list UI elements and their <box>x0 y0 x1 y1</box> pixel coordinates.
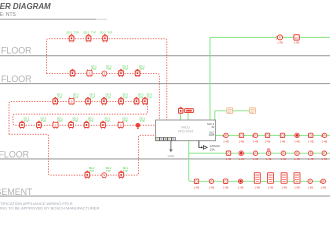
svg-text:TYP: TYP <box>147 96 152 99</box>
speaker NB-7 <box>281 173 287 184</box>
svg-text:SER DIAGRAM: SER DIAGRAM <box>0 2 51 11</box>
svg-text:IN: IN <box>212 125 215 129</box>
label SDB3 <box>123 167 129 173</box>
svg-text:TYP: TYP <box>107 32 112 35</box>
label SD1B1 <box>23 117 29 123</box>
svg-text:P: P <box>309 179 311 183</box>
svg-text:1-4B: 1-4B <box>226 157 232 161</box>
wire SLC floor2 row across and down to panel <box>47 73 160 120</box>
svg-text:D: D <box>227 151 229 155</box>
svg-text:1-4B: 1-4B <box>294 139 300 143</box>
horn strobe N1-1 <box>223 133 229 137</box>
label SDB2 <box>106 167 112 173</box>
device annunciator A2 (labelled box) above panel <box>185 109 194 113</box>
svg-text:1-4B: 1-4B <box>281 185 287 189</box>
wire NAC1 from panel right <box>216 134 330 136</box>
label SD1A2 <box>73 94 79 100</box>
svg-text:S: S <box>103 72 105 76</box>
horn strobe N1-8 <box>321 133 326 137</box>
svg-text:1-4B: 1-4B <box>294 41 300 45</box>
detector SD22 <box>87 69 92 77</box>
power tap 120VAC 15A <box>199 141 220 152</box>
detector SD23 <box>102 71 107 77</box>
horn NB-2 <box>209 179 213 183</box>
svg-text:TYP: TYP <box>74 32 79 35</box>
svg-text:1-4B: 1-4B <box>223 185 229 189</box>
label SD23 <box>106 66 112 72</box>
smoke detector SD1A5 <box>119 97 124 105</box>
terminal strip on panel <box>156 137 176 140</box>
svg-text:1-4B: 1-4B <box>253 157 259 161</box>
svg-text:TYP: TYP <box>91 68 96 71</box>
svg-text:TYP: TYP <box>90 96 95 99</box>
wire NAC riser to 3rd floor + top NAC run <box>210 37 330 120</box>
svg-text:SEMENT: SEMENT <box>0 187 33 197</box>
label SD1A5 <box>122 94 128 100</box>
wire stubs annunciators to panel top <box>180 113 188 120</box>
svg-text:1-4B: 1-4B <box>322 139 328 143</box>
detector SDB2 <box>102 173 107 179</box>
strobe N2-1 <box>226 151 230 155</box>
svg-text:TYP: TYP <box>106 68 111 71</box>
label SD1B4 <box>72 117 78 123</box>
svg-text:1-4B: 1-4B <box>307 185 313 189</box>
svg-text:1-4B: 1-4B <box>268 185 274 189</box>
smoke detector SD1B4 <box>69 121 74 129</box>
smoke detector SDB1 <box>85 171 90 179</box>
label SD1A7 <box>146 94 152 100</box>
svg-text:1-4B: 1-4B <box>320 185 326 189</box>
smoke detector SD21 <box>70 69 75 77</box>
wire SLC basement loop: down left, across basement, up and into panel <box>9 134 156 175</box>
label SDB1 <box>89 167 95 173</box>
speaker NB-8 <box>294 173 300 184</box>
panel FACU FPD-7024 <box>156 120 216 141</box>
wire NAC riser panel bottom to basement <box>189 141 327 182</box>
heat detector SD1B8 <box>136 123 140 128</box>
svg-text:S: S <box>54 123 56 127</box>
label SD1B3 <box>57 117 63 123</box>
horn strobe H31 top floor <box>276 35 282 40</box>
smoke detector SD1A1 <box>53 97 58 105</box>
label SD1B6 <box>104 117 110 123</box>
svg-text:1-4B: 1-4B <box>281 157 287 161</box>
horn N2-5 <box>281 151 285 155</box>
svg-text:TYP: TYP <box>91 32 96 35</box>
svg-text:1-4B: 1-4B <box>308 139 314 143</box>
svg-text:P: P <box>255 151 257 155</box>
svg-text:TYP: TYP <box>57 96 62 99</box>
svg-text:1-4B: 1-4B <box>209 185 215 189</box>
module M2 (tan) <box>250 108 256 114</box>
svg-text:FLOOR: FLOOR <box>0 149 29 159</box>
svg-text:P: P <box>268 151 270 155</box>
label SD1B2 <box>40 117 46 123</box>
label SD33 <box>100 31 113 34</box>
svg-text:FLOOR: FLOOR <box>1 74 32 84</box>
svg-text:P: P <box>323 151 325 155</box>
strobe NB-1 <box>194 179 198 183</box>
horn strobe N2-4 <box>266 149 270 156</box>
floor line 1ST FLOOR <box>0 158 330 160</box>
svg-text:D: D <box>240 134 242 138</box>
wire NAC2 first floor run <box>189 152 330 154</box>
svg-text:1-4B: 1-4B <box>266 157 272 161</box>
svg-text:P: P <box>255 134 257 138</box>
svg-text:P: P <box>282 151 284 155</box>
svg-text:15A: 15A <box>210 148 215 152</box>
svg-text:TYP: TYP <box>140 120 145 123</box>
horn NB-4 <box>238 179 242 183</box>
svg-text:P: P <box>322 179 324 183</box>
svg-text:TYP: TYP <box>106 170 111 173</box>
svg-text:TYP: TYP <box>88 120 93 123</box>
label SD25 <box>139 66 145 72</box>
svg-text:D: D <box>281 134 283 138</box>
svg-text:1-4B: 1-4B <box>294 185 300 189</box>
horn NB-9 <box>308 179 312 183</box>
svg-text:P: P <box>324 134 326 138</box>
svg-text:ING TO BE APPROVED BY BOSCH MA: ING TO BE APPROVED BY BOSCH MANUFACTURER <box>0 205 99 210</box>
svg-text:TYP: TYP <box>24 120 29 123</box>
svg-text:1-4B: 1-4B <box>322 157 328 161</box>
label SD24 <box>122 66 128 72</box>
svg-text:1-4B: 1-4B <box>308 157 314 161</box>
horn strobe NB-10 <box>320 179 326 183</box>
svg-text:P: P <box>279 36 281 40</box>
svg-text:TYP: TYP <box>89 170 94 173</box>
svg-text:1-4B: 1-4B <box>239 139 245 143</box>
svg-text:P: P <box>211 179 213 183</box>
svg-text:P: P <box>225 134 227 138</box>
svg-text:GND: GND <box>168 154 176 158</box>
smoke detector SD1B1 <box>20 121 25 129</box>
wire NAC to modules right of panel <box>215 111 249 120</box>
floor line 3RD FLOOR <box>0 55 330 57</box>
svg-text:D: D <box>266 134 268 138</box>
module M1 (tan) <box>227 108 233 114</box>
horn N2-8 <box>322 151 326 155</box>
horn N2-2 <box>239 151 243 155</box>
svg-text:1-4B: 1-4B <box>238 185 244 189</box>
horn N2-3 <box>253 151 257 155</box>
strobe NB-3 <box>223 179 227 183</box>
label SD32 <box>83 31 96 34</box>
svg-text:1-4B: 1-4B <box>294 157 300 161</box>
svg-text:1-4B: 1-4B <box>253 139 259 143</box>
wire SLC loop floor3: row1 across, down risers both ends <box>47 39 167 120</box>
smoke detector SD33 <box>103 34 108 42</box>
svg-text:TYP: TYP <box>139 68 144 71</box>
svg-text:SD-2: SD-2 <box>100 31 106 34</box>
label SD1B8 <box>139 117 145 123</box>
svg-text:S: S <box>70 100 72 104</box>
svg-text:TYP: TYP <box>57 120 62 123</box>
detector SD1B3 <box>53 121 58 128</box>
svg-text:TYP: TYP <box>123 68 128 71</box>
label SD1A4 <box>105 94 111 100</box>
label SD1B5 <box>88 117 94 123</box>
svg-text:LE: NTS: LE: NTS <box>0 12 17 18</box>
svg-text:TYP: TYP <box>73 96 78 99</box>
smoke detector SD25 <box>135 69 140 77</box>
label SD1A1 <box>57 94 63 100</box>
svg-text:TYP: TYP <box>123 96 128 99</box>
smoke detector SD32 <box>86 34 91 42</box>
svg-text:1-4B: 1-4B <box>277 41 283 45</box>
svg-text:P: P <box>310 151 312 155</box>
wire SLC floor1 upper rows: row3, bend, rowB-upper, rowB-lower to panel <box>9 102 156 135</box>
svg-text:S: S <box>88 72 90 76</box>
label SD1B7 <box>122 117 128 123</box>
strobe N1-7 <box>309 133 313 137</box>
floor line 2ND FLOOR <box>0 83 330 85</box>
svg-text:TYP: TYP <box>41 120 46 123</box>
horn N1-6 <box>295 133 299 137</box>
smoke detector SD24 <box>119 69 124 77</box>
smoke detector SDB3 <box>119 171 124 179</box>
strobe N1-4 <box>265 133 269 137</box>
speaker NB-6 <box>268 173 274 184</box>
svg-text:1-4B: 1-4B <box>238 157 244 161</box>
label SD1A6 <box>138 94 144 100</box>
smoke detector SD1B2 <box>37 121 42 129</box>
strobe V31 top floor <box>294 35 299 40</box>
svg-text:TYP: TYP <box>123 170 128 173</box>
floor line BASEMENT <box>0 195 330 197</box>
label SD22 <box>91 66 97 72</box>
svg-text:S: S <box>120 123 122 127</box>
svg-text:S: S <box>103 173 105 177</box>
svg-text:D: D <box>195 179 197 183</box>
smoke detector SD1B5 <box>84 121 89 129</box>
ground GND below panel <box>168 141 176 158</box>
smoke detector SD1A3 <box>86 97 91 105</box>
svg-text:SD-2: SD-2 <box>83 31 89 34</box>
svg-text:FLOOR: FLOOR <box>1 45 32 55</box>
svg-text:D: D <box>225 179 227 183</box>
detector SD1A2 <box>69 98 74 106</box>
label SD31 <box>66 31 79 34</box>
device annunciator A1 above panel <box>179 107 184 113</box>
svg-text:1-4B: 1-4B <box>265 139 271 143</box>
title underline <box>0 18 96 20</box>
svg-text:OUT: OUT <box>209 133 215 137</box>
strobe N1-2 <box>239 133 243 137</box>
svg-text:TYP: TYP <box>105 120 110 123</box>
smoke detector SD1B6 <box>101 121 106 129</box>
detector SD1B7 <box>118 121 123 128</box>
speaker NB-5 <box>254 173 260 184</box>
smoke detector SD31 <box>69 34 74 42</box>
horn N2-6 <box>295 151 299 155</box>
svg-text:TYP: TYP <box>73 120 78 123</box>
svg-text:1-4B: 1-4B <box>255 185 261 189</box>
svg-text:1-4B: 1-4B <box>194 185 200 189</box>
svg-text:TYP: TYP <box>123 120 128 123</box>
svg-text:FPD-7024: FPD-7024 <box>178 129 193 133</box>
svg-text:1-4B: 1-4B <box>223 139 229 143</box>
svg-text:P: P <box>296 151 298 155</box>
svg-text:1-4B: 1-4B <box>280 139 286 143</box>
smoke detector SD1A7 <box>143 97 148 105</box>
horn N2-7 <box>309 151 313 155</box>
smoke detector SD1A6 <box>134 97 139 105</box>
svg-text:TYP: TYP <box>106 96 111 99</box>
horn strobe N1-3 <box>252 133 258 137</box>
label SD1A3 <box>89 94 95 100</box>
smoke detector SD1A4 <box>102 97 107 105</box>
svg-text:D: D <box>310 134 312 138</box>
svg-text:SD-2: SD-2 <box>66 31 72 34</box>
strobe N1-5 <box>280 133 284 137</box>
